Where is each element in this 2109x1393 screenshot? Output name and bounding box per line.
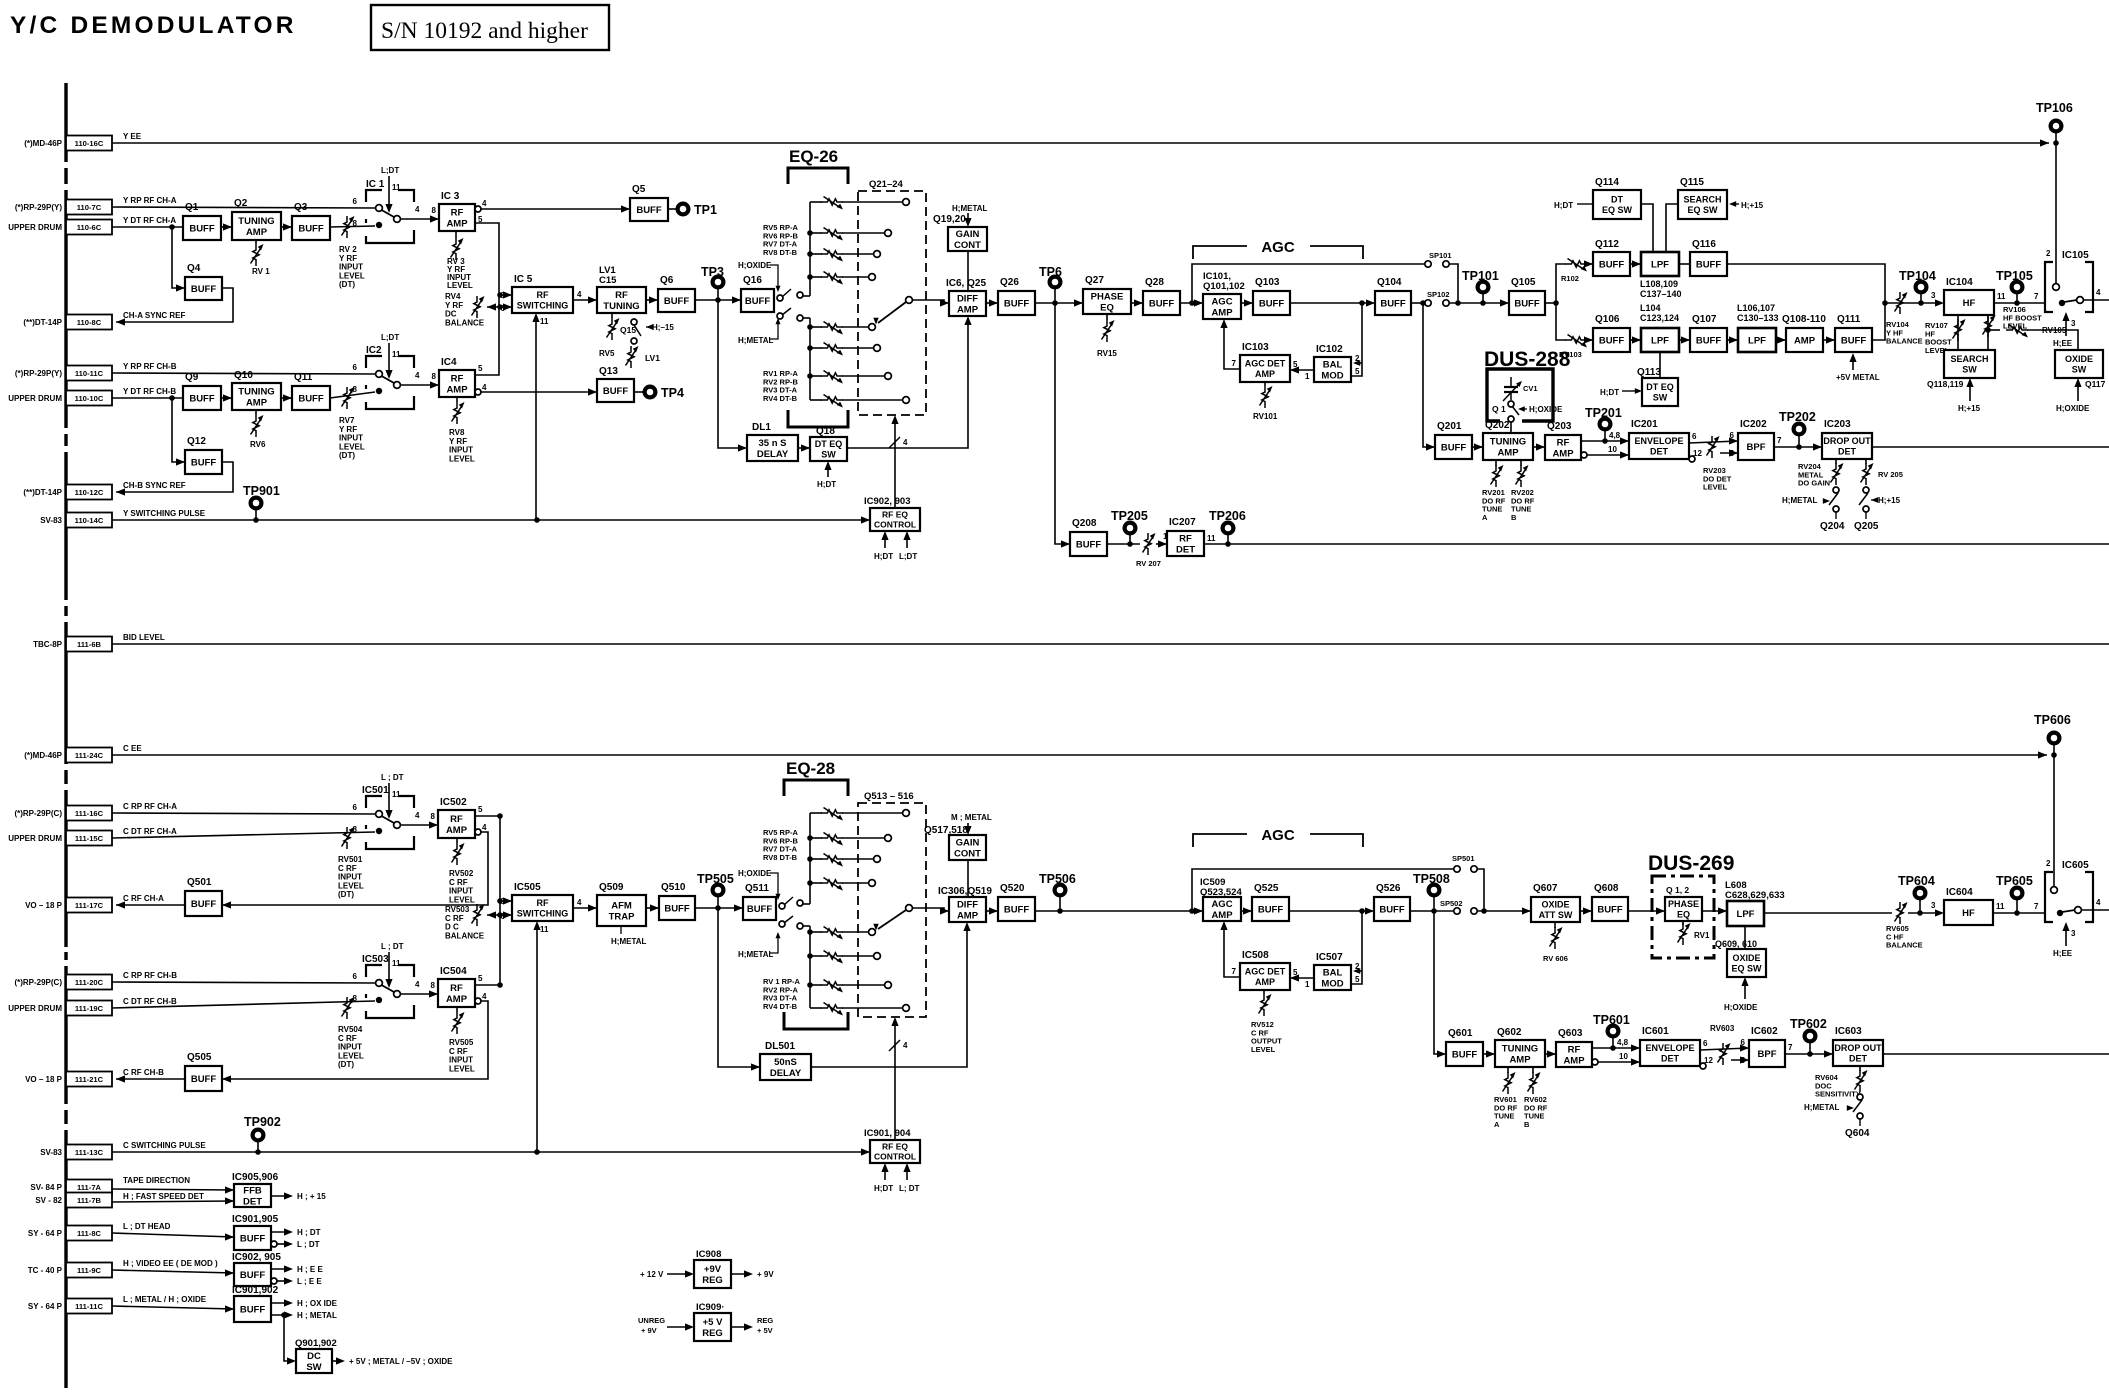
amplifier IC508 AGC DET AMP xyxy=(1240,950,1290,990)
svg-text:UPPER DRUM: UPPER DRUM xyxy=(8,394,62,403)
label L;DT into RF EQ CONTROL xyxy=(906,535,908,548)
connector 111-7B xyxy=(35,1193,112,1208)
svg-text:REG: REG xyxy=(702,1328,723,1339)
wire IC2 to IC4 xyxy=(400,384,439,386)
label H;METAL AFM TRAP xyxy=(620,926,622,934)
wire L METAL H OXIDE xyxy=(112,1306,234,1309)
svg-text:C RP RF CH-B: C RP RF CH-B xyxy=(123,971,177,980)
svg-text:IC905,906: IC905,906 xyxy=(232,1172,279,1183)
wire AGC AMP to Q525 xyxy=(1241,910,1252,912)
wire SP501 to rejoin xyxy=(1477,869,1484,911)
svg-text:SV-83: SV-83 xyxy=(40,1148,62,1157)
svg-text:RV8 DT-B: RV8 DT-B xyxy=(763,248,798,257)
svg-text:RV 606: RV 606 xyxy=(1543,954,1568,963)
svg-text:BUFF: BUFF xyxy=(240,1304,266,1315)
svg-text:TUNING: TUNING xyxy=(238,386,274,397)
svg-text:Y RP RF CH-B: Y RP RF CH-B xyxy=(123,362,177,371)
amplifier IC306 Q519 DIFF AMP xyxy=(938,886,992,922)
EQ-28 upper feed bus xyxy=(809,813,811,904)
wire TP3 junction down to DL1 xyxy=(718,300,747,448)
wire IC909 out REG +5V xyxy=(731,1326,748,1328)
svg-text:DC: DC xyxy=(445,310,457,319)
svg-text:(DT): (DT) xyxy=(339,451,355,460)
svg-text:10: 10 xyxy=(1619,1052,1628,1061)
svg-text:IC909·: IC909· xyxy=(696,1302,725,1313)
svg-text:BID LEVEL: BID LEVEL xyxy=(123,633,165,642)
svg-text:IC202: IC202 xyxy=(1740,419,1767,430)
equalizer Q27 PHASE EQ xyxy=(1083,275,1131,314)
potentiometer EQ-28 row 8 xyxy=(810,1007,822,1009)
svg-text:BPF: BPF xyxy=(1747,442,1766,453)
potentiometer RV2 xyxy=(342,216,355,238)
svg-text:H;DT: H;DT xyxy=(1554,201,1573,210)
svg-text:L108,109: L108,109 xyxy=(1640,279,1678,289)
wire SP102 to Q105 xyxy=(1449,302,1509,304)
svg-text:L ; METAL / H ; OXIDE: L ; METAL / H ; OXIDE xyxy=(123,1295,207,1304)
svg-text:DROP OUT: DROP OUT xyxy=(1823,436,1871,446)
wire Q501 to 111-17C xyxy=(116,904,185,906)
svg-text:SV-83: SV-83 xyxy=(40,516,62,525)
svg-text:Q609, 610: Q609, 610 xyxy=(1715,939,1757,949)
wire Q104 branch down to Q201 xyxy=(1423,303,1435,447)
test point TP601 xyxy=(1593,1013,1630,1048)
detector IC207 RF DET xyxy=(1167,517,1204,556)
filter IC604 HF xyxy=(1944,887,1993,925)
svg-text:HF: HF xyxy=(1962,908,1975,919)
wire IC5 to RF TUNING xyxy=(573,299,597,301)
wire lower switch to EQ bus C xyxy=(803,925,810,927)
svg-text:Q3: Q3 xyxy=(294,202,308,213)
svg-text:M ; METAL: M ; METAL xyxy=(951,813,992,822)
wire Q10 to Q11 xyxy=(281,397,292,399)
buffer Q3 xyxy=(292,202,330,240)
svg-text:TP605: TP605 xyxy=(1996,874,2033,888)
wire Y DT CH-B branch to Q12 xyxy=(172,398,185,462)
svg-text:H;DT: H;DT xyxy=(874,1184,893,1193)
wire Q603 to ENVELOPE DET C pin 4,8 xyxy=(1592,1047,1640,1049)
svg-text:L;DT: L;DT xyxy=(381,166,399,175)
svg-text:ENVELOPE: ENVELOPE xyxy=(1634,436,1683,446)
svg-text:110-12C: 110-12C xyxy=(75,488,104,497)
svg-text:Q106: Q106 xyxy=(1595,314,1620,325)
svg-text:BALANCE: BALANCE xyxy=(445,318,485,327)
wire LPF2 to Q113 xyxy=(1659,352,1661,378)
potentiometer EQ-28 row 5 xyxy=(810,931,822,933)
svg-text:H;DT: H;DT xyxy=(817,480,836,489)
wire Q520 to AGC AMP C xyxy=(1035,910,1203,912)
svg-text:7: 7 xyxy=(1788,1043,1793,1052)
svg-text:IC 3: IC 3 xyxy=(441,191,460,202)
svg-text:SW: SW xyxy=(1962,364,1977,374)
S/N box xyxy=(371,5,609,50)
svg-text:H;DT: H;DT xyxy=(874,552,893,561)
wire Q26 to Q27 xyxy=(1035,302,1083,304)
wire Q115 to LPF top xyxy=(1666,204,1678,252)
amplifier IC3 RF AMP xyxy=(439,191,475,231)
svg-text:4: 4 xyxy=(482,992,487,1001)
svg-text:RV 205: RV 205 xyxy=(1878,470,1903,479)
svg-text:Q13: Q13 xyxy=(599,366,618,377)
switch IC2 arm xyxy=(382,376,395,383)
wire Q105 split xyxy=(1545,302,1556,304)
svg-text:L104: L104 xyxy=(1640,303,1661,313)
buffer Q526 xyxy=(1374,883,1410,921)
wire IC1 to IC3 xyxy=(400,218,439,220)
wire BAL MOD to AGC DET AMP C xyxy=(1290,977,1314,979)
svg-text:BUFF: BUFF xyxy=(1258,904,1284,915)
wire Q505 to 111-21C xyxy=(116,1078,185,1080)
bracket EQ-26 top xyxy=(788,168,848,184)
wire RV105 to OXIDE SW xyxy=(2027,330,2078,350)
svg-text:TP508: TP508 xyxy=(1413,872,1450,886)
wire TP508 junction down to Q601 xyxy=(1434,911,1446,1054)
svg-text:TP6: TP6 xyxy=(1039,265,1062,279)
wire Q602 to Q603 xyxy=(1545,1053,1556,1055)
wire C RP RF CH-B xyxy=(112,982,375,983)
pin 4 IC3 xyxy=(475,206,481,212)
svg-text:IC201: IC201 xyxy=(1631,419,1658,430)
switch Q204 xyxy=(1833,487,1839,493)
connector 110-6C xyxy=(8,216,176,235)
wire LPF C to RV605 xyxy=(1764,912,1892,914)
svg-text:AMP: AMP xyxy=(1497,447,1519,458)
svg-text:111-6B: 111-6B xyxy=(77,640,102,649)
svg-text:IC901,902: IC901,902 xyxy=(232,1285,279,1296)
svg-text:Y DT RF CH-B: Y DT RF CH-B xyxy=(123,387,176,396)
svg-text:BUFF: BUFF xyxy=(298,393,324,404)
wire AGC AMP to Q103 xyxy=(1241,302,1253,304)
svg-text:Q117: Q117 xyxy=(2085,379,2106,389)
svg-text:RV8: RV8 xyxy=(449,428,465,437)
connector 111-24C xyxy=(24,744,142,763)
svg-text:TUNING: TUNING xyxy=(1490,436,1526,447)
svg-text:LPF: LPF xyxy=(1748,335,1766,346)
test point TP602 xyxy=(1790,1017,1827,1054)
connector 111-7A xyxy=(30,1176,190,1195)
svg-text:BUFF: BUFF xyxy=(1004,298,1030,309)
svg-text:UPPER DRUM: UPPER DRUM xyxy=(8,1004,62,1013)
wire Y switching pulse to IC5 pin 11 xyxy=(535,317,537,520)
svg-text:111-24C: 111-24C xyxy=(75,751,104,760)
svg-text:CONT: CONT xyxy=(954,240,981,251)
svg-text:BUFF: BUFF xyxy=(191,1074,217,1085)
buffer Q510 xyxy=(659,882,695,920)
svg-text:RV4: RV4 xyxy=(445,292,461,301)
EQ-26 lower feed bus xyxy=(809,318,811,400)
svg-text:DIFF: DIFF xyxy=(957,293,978,304)
wire EQ-28 pivot to DIFF AMP C xyxy=(912,908,949,911)
svg-text:Q18: Q18 xyxy=(816,426,835,437)
svg-text:H ; FAST SPEED DET: H ; FAST SPEED DET xyxy=(123,1192,204,1201)
switch IC605 arm xyxy=(2062,910,2075,912)
svg-text:CH-A SYNC REF: CH-A SYNC REF xyxy=(123,311,185,320)
svg-text:BUFF: BUFF xyxy=(189,393,215,404)
svg-text:AMP: AMP xyxy=(1211,910,1233,921)
connector 111-13C xyxy=(40,1141,206,1160)
delay DL1 35nS xyxy=(747,422,798,461)
svg-text:8: 8 xyxy=(353,994,358,1003)
svg-text:B: B xyxy=(1511,513,1517,522)
svg-text:EQ: EQ xyxy=(1100,302,1114,313)
wire Q2 to Q3 xyxy=(281,226,292,228)
switch IC2 bracket xyxy=(366,356,382,368)
wire IC504 pin5 to bus xyxy=(475,984,500,986)
svg-text:C RF: C RF xyxy=(449,878,468,887)
wire SP501 bypass xyxy=(1192,869,1453,911)
svg-text:7: 7 xyxy=(2034,292,2039,301)
svg-text:Y RF: Y RF xyxy=(445,301,463,310)
potentiometer RV202 xyxy=(1520,460,1522,466)
svg-text:INPUT: INPUT xyxy=(449,1056,473,1065)
potentiometer RV505 xyxy=(456,1007,458,1012)
test point TP901 xyxy=(243,484,280,520)
potentiometer RV503 xyxy=(472,904,485,926)
wire IC505 to AFM TRAP xyxy=(573,907,597,909)
wire Q6 to Q16 xyxy=(695,299,741,301)
svg-text:BUFF: BUFF xyxy=(1441,442,1467,453)
svg-text:C RF: C RF xyxy=(445,914,464,923)
svg-text:8: 8 xyxy=(432,206,437,215)
connector 111-15C xyxy=(8,827,177,846)
svg-text:Q104: Q104 xyxy=(1377,277,1402,288)
wire Q103 to Q104 xyxy=(1290,302,1375,304)
svg-text:DROP OUT: DROP OUT xyxy=(1834,1043,1882,1053)
wire TP106 drop to IC105 pin 2 xyxy=(2055,143,2057,283)
amplifier IC101 Q101 Q102 AGC AMP xyxy=(1203,294,1241,319)
wire AFM TRAP to Q510 xyxy=(646,907,659,909)
amplifier Q108-110 AMP xyxy=(1782,314,1826,352)
svg-text:(*)RP-29P(C): (*)RP-29P(C) xyxy=(14,978,62,987)
buffer Q505 xyxy=(185,1052,222,1091)
svg-text:BAL: BAL xyxy=(1323,967,1343,978)
buffer Q105 xyxy=(1509,277,1545,315)
connector 111-19C xyxy=(8,997,177,1016)
switch SP101 xyxy=(1425,261,1431,267)
switch SEARCH SW Q118 Q119 xyxy=(1944,350,1995,378)
svg-text:DET: DET xyxy=(1838,446,1857,456)
svg-text:GAIN: GAIN xyxy=(956,229,980,240)
buffer IC902 905 xyxy=(232,1252,281,1286)
svg-text:Q6: Q6 xyxy=(660,275,674,286)
svg-text:H;METAL: H;METAL xyxy=(952,204,988,213)
svg-text:RF: RF xyxy=(537,290,549,300)
svg-text:AMP: AMP xyxy=(957,910,979,921)
svg-text:IC306,Q519: IC306,Q519 xyxy=(938,886,992,897)
svg-text:REG: REG xyxy=(757,1316,773,1325)
potentiometer RV601 xyxy=(1507,1067,1509,1073)
svg-text:DT EQ: DT EQ xyxy=(815,439,843,449)
svg-text:TP105: TP105 xyxy=(1996,269,2033,283)
wire C RP RF CH-A xyxy=(112,813,375,814)
potentiometer EQ-28 row 7 xyxy=(810,984,822,986)
amplifier IC4 RF AMP xyxy=(439,357,475,397)
wire L DT HEAD xyxy=(112,1233,234,1237)
filter LPF L104 C123 C124 xyxy=(1641,328,1679,352)
svg-text:BUFF: BUFF xyxy=(603,386,629,397)
svg-text:RV4 DT-B: RV4 DT-B xyxy=(763,1002,798,1011)
buffer Q103 xyxy=(1253,277,1290,315)
svg-text:UNREG: UNREG xyxy=(638,1316,665,1325)
svg-text:111-7B: 111-7B xyxy=(77,1196,102,1205)
buffer Q116 xyxy=(1690,239,1727,276)
svg-text:DO GAIN: DO GAIN xyxy=(1798,479,1830,488)
svg-text:RF: RF xyxy=(450,814,463,825)
potentiometer RV1 DUS-269 xyxy=(1678,923,1691,945)
wire IC601 pin6 to BPF C xyxy=(1700,1048,1749,1050)
svg-text:BUFF: BUFF xyxy=(664,296,690,307)
wire lower switch to EQ bus xyxy=(803,317,810,319)
svg-text:S/N 10192 and higher: S/N 10192 and higher xyxy=(381,18,588,44)
connector 110-11C xyxy=(15,362,177,381)
wire Q111 to RV104 junction xyxy=(1872,303,1885,340)
svg-text:5: 5 xyxy=(1293,968,1298,977)
switch SP502 xyxy=(1454,908,1460,914)
svg-text:H;+15: H;+15 xyxy=(1958,404,1981,413)
svg-text:+ 9V: + 9V xyxy=(641,1326,657,1335)
EQ-26 upper feed bus xyxy=(809,202,811,296)
switch IC503 contacts xyxy=(376,980,383,987)
svg-text:RF: RF xyxy=(450,983,463,994)
wire upper switch to EQ bus xyxy=(803,295,810,297)
wire RF TUNING to Q6 xyxy=(646,299,658,301)
svg-text:4,8: 4,8 xyxy=(1609,431,1621,440)
svg-text:+5V METAL: +5V METAL xyxy=(1836,373,1880,382)
potentiometer RV604 xyxy=(1859,1066,1861,1071)
svg-text:IC501: IC501 xyxy=(362,785,389,796)
svg-text:111-21C: 111-21C xyxy=(75,1075,104,1084)
svg-text:VO – 18 P: VO – 18 P xyxy=(25,1075,63,1084)
amplifier IC103 AGC DET AMP xyxy=(1240,342,1290,382)
wire LPF3 to AMP xyxy=(1776,339,1786,341)
test point TP101 xyxy=(1462,269,1499,303)
svg-text:Q525: Q525 xyxy=(1254,883,1279,894)
svg-text:4: 4 xyxy=(415,205,420,214)
connector 111-9C xyxy=(28,1259,218,1278)
svg-text:Q201: Q201 xyxy=(1437,421,1462,432)
wire BAL MOD C pin2 branch xyxy=(1355,970,1362,972)
wire TP6 junction down to Q208 xyxy=(1055,303,1070,544)
svg-text:RF EQ: RF EQ xyxy=(882,510,908,520)
svg-text:2: 2 xyxy=(2046,249,2051,258)
buffer Q12 xyxy=(185,436,222,474)
wire M;METAL into GAIN CONT C xyxy=(967,823,969,831)
svg-text:C EE: C EE xyxy=(123,744,142,753)
svg-text:DELAY: DELAY xyxy=(757,449,789,460)
svg-text:B: B xyxy=(1524,1120,1530,1129)
wire BUFF out L;DT xyxy=(271,1241,277,1247)
svg-text:DET: DET xyxy=(1650,446,1669,456)
svg-text:DET: DET xyxy=(243,1196,262,1207)
wire Y RP RF CH-B xyxy=(112,373,375,374)
dashed box Q21-24 xyxy=(858,191,926,415)
svg-text:4: 4 xyxy=(415,811,420,820)
equalizer PHASE EQ Q1 Q2 xyxy=(1665,897,1702,921)
svg-text:Q513 – 516: Q513 – 516 xyxy=(864,791,914,802)
svg-text:110-14C: 110-14C xyxy=(75,516,104,525)
svg-text:TP505: TP505 xyxy=(697,872,734,886)
svg-text:BUFF: BUFF xyxy=(1696,335,1722,346)
svg-text:CV1: CV1 xyxy=(1523,384,1538,393)
svg-text:LPF: LPF xyxy=(1651,259,1669,270)
svg-text:Q204: Q204 xyxy=(1820,521,1845,532)
svg-text:H;METAL: H;METAL xyxy=(738,950,774,959)
filter LPF L106 L107 C130-133 xyxy=(1738,328,1776,352)
potentiometer RV107 xyxy=(1957,315,1959,350)
svg-text:TP604: TP604 xyxy=(1898,874,1935,888)
svg-text:Q208: Q208 xyxy=(1072,518,1097,529)
svg-text:Q2: Q2 xyxy=(234,198,248,209)
svg-text:Q112: Q112 xyxy=(1595,239,1619,250)
buffer Q525 xyxy=(1252,883,1289,921)
modulator IC507 BAL MOD xyxy=(1314,952,1351,990)
svg-text:11: 11 xyxy=(540,317,549,326)
svg-text:H;METAL: H;METAL xyxy=(1804,1103,1840,1112)
test point TP508 xyxy=(1413,872,1450,911)
svg-text:DET: DET xyxy=(1661,1053,1680,1063)
svg-text:111-11C: 111-11C xyxy=(75,1302,103,1311)
svg-text:RF: RF xyxy=(537,898,549,908)
wire BAL MOD to AGC DET AMP xyxy=(1290,369,1314,371)
label L;DT into RF EQ CONTROL C xyxy=(906,1167,908,1180)
bracket AGC C xyxy=(1193,834,1247,847)
svg-text:SENSITIVITY: SENSITIVITY xyxy=(1815,1090,1861,1099)
switch Q18 DT EQ SW xyxy=(810,426,847,461)
potentiometer RV204 xyxy=(1835,459,1837,464)
amplifier Q602 TUNING AMP xyxy=(1495,1027,1545,1067)
label H;DT Q18 xyxy=(827,465,829,477)
svg-text:SY - 64 P: SY - 64 P xyxy=(28,1229,63,1238)
svg-text:IC604: IC604 xyxy=(1946,887,1973,898)
svg-text:+ 12 V: + 12 V xyxy=(640,1270,664,1279)
selector arm EQ-26 xyxy=(906,297,913,304)
svg-text:Y RF: Y RF xyxy=(339,254,357,263)
wire Y SWITCHING PULSE xyxy=(112,519,870,521)
svg-text:C SWITCHING PULSE: C SWITCHING PULSE xyxy=(123,1141,206,1150)
buffer IC901 905 xyxy=(232,1214,279,1250)
potentiometer RV8 xyxy=(456,397,458,402)
svg-text:AMP: AMP xyxy=(446,994,468,1005)
trimmer capacitor CV1 xyxy=(1503,377,1522,401)
potentiometer RV203 xyxy=(1707,436,1720,458)
wire H FAST SPEED DET xyxy=(112,1201,234,1202)
svg-text:Y SWITCHING PULSE: Y SWITCHING PULSE xyxy=(123,509,206,518)
svg-text:D C: D C xyxy=(445,923,459,932)
svg-text:RV502: RV502 xyxy=(449,869,474,878)
svg-text:Q602: Q602 xyxy=(1497,1027,1522,1038)
buffer Q208 xyxy=(1070,518,1107,556)
regulator IC909 +5V REG xyxy=(694,1313,731,1341)
svg-text:5: 5 xyxy=(478,805,483,814)
svg-text:H;OXIDE: H;OXIDE xyxy=(1529,405,1563,414)
svg-text:AGC: AGC xyxy=(1211,296,1232,307)
svg-text:IC605: IC605 xyxy=(2062,860,2089,871)
switch Q607 OXIDE ATT SW xyxy=(1531,883,1580,922)
svg-text:RV 2: RV 2 xyxy=(339,245,357,254)
connector 111-8C xyxy=(28,1222,171,1241)
buffer Q11 xyxy=(292,372,330,410)
svg-text:SW: SW xyxy=(2072,364,2087,374)
svg-text:Q1: Q1 xyxy=(185,202,199,213)
wire BUFF out L;EE xyxy=(271,1278,277,1284)
svg-text:RV8 DT-B: RV8 DT-B xyxy=(763,853,798,862)
potentiometer EQ-26 row 6 xyxy=(810,347,822,349)
svg-text:2: 2 xyxy=(2046,859,2051,868)
svg-text:BALANCE: BALANCE xyxy=(445,931,485,940)
connector 111-20C xyxy=(14,971,177,990)
svg-text:H;METAL: H;METAL xyxy=(738,336,774,345)
controller IC902 903 RF EQ CONTROL xyxy=(870,508,920,531)
switch OXIDE SW Q117 xyxy=(2055,350,2103,378)
